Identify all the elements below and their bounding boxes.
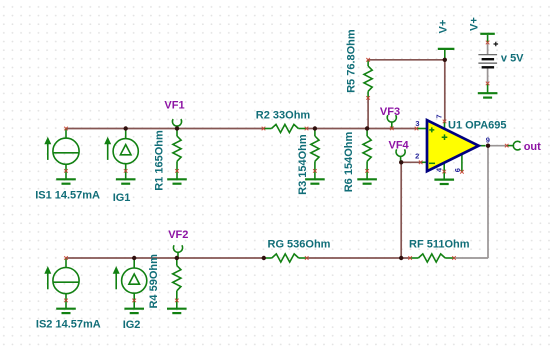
- svg-text:7: 7: [435, 114, 444, 118]
- svg-text:out: out: [524, 141, 541, 153]
- svg-text:R6 154Ohm: R6 154Ohm: [343, 132, 355, 193]
- svg-text:VF1: VF1: [164, 99, 184, 111]
- svg-text:R4 59Ohm: R4 59Ohm: [148, 254, 160, 309]
- svg-text:v 5V: v 5V: [501, 52, 524, 64]
- svg-text:R1 165Ohm: R1 165Ohm: [154, 130, 166, 191]
- svg-text:2: 2: [415, 152, 419, 161]
- svg-text:V+: V+: [438, 20, 450, 34]
- svg-text:9: 9: [486, 135, 490, 144]
- svg-text:U1 OPA695: U1 OPA695: [448, 119, 507, 131]
- svg-text:RF 511Ohm: RF 511Ohm: [409, 239, 470, 251]
- svg-text:IS2 14.57mA: IS2 14.57mA: [36, 318, 101, 330]
- svg-text:RG 536Ohm: RG 536Ohm: [268, 239, 331, 251]
- svg-text:6: 6: [453, 168, 462, 172]
- svg-text:IG1: IG1: [113, 192, 131, 204]
- svg-text:VF4: VF4: [389, 139, 410, 151]
- svg-text:V+: V+: [468, 17, 480, 31]
- svg-text:VF3: VF3: [380, 106, 400, 118]
- svg-text:VF2: VF2: [168, 229, 188, 241]
- svg-text:3: 3: [415, 119, 419, 128]
- svg-text:R3 154Ohm: R3 154Ohm: [297, 134, 309, 195]
- svg-text:R5 76.8Ohm: R5 76.8Ohm: [345, 29, 357, 93]
- svg-text:R2 33Ohm: R2 33Ohm: [256, 110, 311, 122]
- svg-text:IG2: IG2: [123, 319, 141, 331]
- svg-text:IS1 14.57mA: IS1 14.57mA: [35, 189, 100, 201]
